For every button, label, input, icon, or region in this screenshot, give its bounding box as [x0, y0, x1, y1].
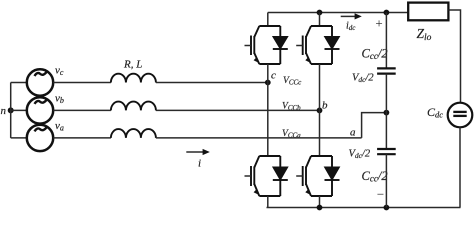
junction top rail capacitor branch — [384, 10, 390, 16]
label vCCc — [283, 76, 302, 86]
wire right branch lower — [459, 127, 461, 207]
transistor IGBT top leg b with diode — [296, 26, 339, 64]
junction bottom rail capacitor branch — [384, 205, 390, 211]
label Vdc/2 upper — [352, 73, 374, 84]
transistor IGBT bottom leg c with diode — [245, 156, 288, 196]
wire phase c source to inductor — [53, 82, 111, 84]
wire top rail — [268, 12, 408, 14]
svg-text:b: b — [322, 100, 328, 112]
transistor IGBT top leg c with diode — [245, 26, 288, 64]
wire phase a step to midpoint — [362, 113, 387, 138]
wire phase a inductor to corner — [156, 137, 362, 139]
svg-text:Vdc/2: Vdc/2 — [349, 149, 371, 160]
wire leg b bottom to rail — [319, 196, 321, 208]
svg-text:+: + — [375, 16, 382, 31]
label minus — [377, 187, 384, 202]
current arrow idc — [341, 13, 362, 32]
wire capacitor branch lower — [385, 154, 387, 207]
svg-text:Vdc/2: Vdc/2 — [352, 73, 374, 84]
node n — [1, 105, 14, 117]
wire stub bus to source vc — [11, 82, 27, 84]
transistor IGBT bottom leg b with diode — [296, 156, 339, 196]
source vc — [27, 65, 64, 96]
junction top rail leg b — [317, 10, 323, 16]
wire leg b top — [319, 13, 321, 27]
svg-text:VCCc: VCCc — [283, 76, 302, 86]
wire leg c bottom to rail — [267, 196, 269, 208]
svg-text:a: a — [350, 127, 356, 139]
inductor phase c value R, L — [111, 59, 156, 83]
wire load box to right branch — [448, 10, 460, 103]
current arrow i — [186, 149, 210, 170]
wire stub bus to source va — [11, 137, 27, 139]
wire leg b node b to lower device — [319, 110, 321, 156]
label vCCa — [282, 129, 301, 139]
wire leg b upper device to node b — [319, 64, 321, 110]
wire phase b source to inductor — [53, 109, 111, 111]
wire bottom rail — [267, 207, 461, 209]
label vCCb — [282, 102, 301, 112]
wire leg c top — [267, 13, 269, 27]
load impedance Zlo — [408, 3, 448, 43]
capacitor Ccc/2 upper — [362, 47, 396, 74]
svg-text:i: i — [198, 158, 201, 170]
wire stub bus to source vb — [11, 109, 27, 111]
source Cdc — [427, 103, 472, 128]
junction capacitor midpoint — [384, 110, 390, 116]
wire phase c inductor to node c — [156, 82, 268, 84]
label plus — [375, 16, 382, 31]
wire leg c node c to lower device — [267, 83, 269, 157]
node a — [350, 127, 356, 139]
capacitor Ccc/2 lower — [362, 149, 396, 184]
wire phase b inductor to node b — [156, 109, 320, 111]
svg-text:VCCa: VCCa — [282, 129, 301, 139]
junction bottom rail leg b — [317, 205, 323, 211]
source va — [27, 120, 64, 151]
node b — [317, 100, 328, 114]
wire capacitor branch upper — [385, 13, 387, 69]
svg-text:−: − — [377, 187, 384, 202]
label Vdc/2 lower — [349, 149, 371, 160]
wire leg c upper device to node c — [267, 64, 269, 83]
svg-text:R, L: R, L — [123, 59, 142, 71]
wire left bus vertical — [10, 83, 12, 138]
inductor phase a — [111, 129, 156, 138]
svg-text:VCCb: VCCb — [282, 102, 301, 112]
node c — [265, 70, 276, 86]
wire phase a source to inductor — [53, 137, 111, 139]
svg-text:c: c — [271, 70, 276, 82]
svg-text:n: n — [1, 105, 7, 117]
inductor phase b — [111, 102, 156, 111]
wire capacitor branch middle — [385, 74, 387, 149]
source vb — [27, 92, 64, 123]
